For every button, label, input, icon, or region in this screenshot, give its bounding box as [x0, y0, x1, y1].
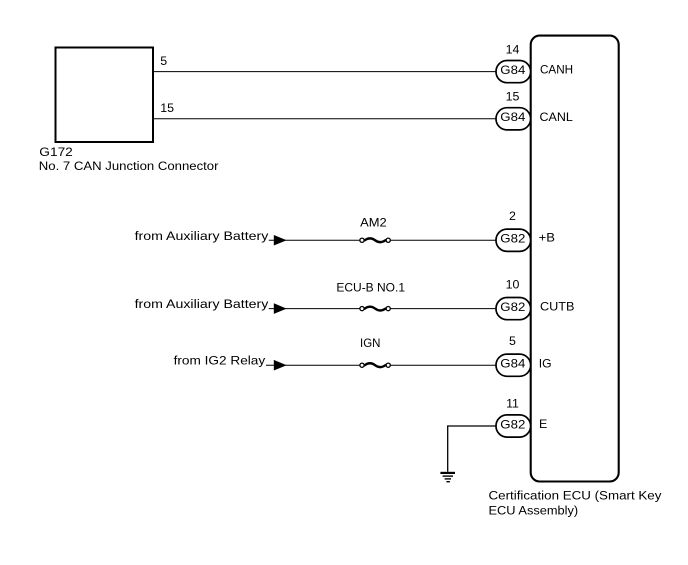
svg-text:G82: G82	[500, 232, 525, 246]
svg-text:CANL: CANL	[540, 110, 573, 124]
svg-text:5: 5	[160, 54, 167, 68]
ground symbol	[440, 473, 455, 482]
svg-text:from Auxiliary Battery: from Auxiliary Battery	[135, 229, 270, 243]
fuse ECU-B NO.1	[360, 307, 390, 311]
svg-text:CUTB: CUTB	[540, 300, 575, 314]
svg-text:from IG2 Relay: from IG2 Relay	[174, 354, 266, 368]
svg-text:CANH: CANH	[540, 63, 573, 77]
svg-text:G84: G84	[500, 357, 525, 371]
svg-text:G172: G172	[39, 145, 73, 159]
fuse AM2	[360, 238, 390, 242]
wire from Auxiliary Battery to fuse AM2	[269, 239, 360, 241]
svg-text:14: 14	[506, 43, 520, 57]
arrow (row CUTB)	[274, 303, 287, 314]
connector pill G84 pin row IG	[496, 354, 531, 376]
svg-text:5: 5	[509, 334, 516, 348]
svg-text:ECU-B NO.1: ECU-B NO.1	[336, 280, 405, 294]
arrow (row +B)	[274, 235, 287, 246]
svg-text:G84: G84	[500, 110, 525, 124]
svg-text:G82: G82	[500, 300, 525, 314]
Certification ECU box U1	[531, 36, 619, 482]
svg-text:E: E	[539, 417, 547, 431]
svg-text:from Auxiliary Battery: from Auxiliary Battery	[135, 297, 270, 311]
connector pill G84 pin row CANL	[496, 108, 531, 130]
junction connector G172 box	[56, 48, 154, 143]
svg-text:2: 2	[509, 209, 516, 223]
svg-text:AM2: AM2	[360, 216, 387, 230]
svg-text:No. 7 CAN Junction Connector: No. 7 CAN Junction Connector	[39, 159, 219, 173]
wire from IG2 Relay to fuse IGN	[266, 364, 360, 366]
svg-text:11: 11	[506, 397, 519, 411]
connector pill G84 pin row CANH	[496, 61, 531, 83]
svg-text:ECU Assembly): ECU Assembly)	[489, 504, 579, 518]
svg-text:+B: +B	[539, 231, 555, 245]
connector pill G82 pin row CUTB	[496, 298, 531, 320]
wire from fuse IGN to ECU pin 5	[390, 364, 498, 366]
wire from Auxiliary Battery to fuse ECU-B NO.1	[269, 308, 360, 310]
svg-text:15: 15	[506, 90, 520, 104]
fuse IGN	[360, 363, 390, 367]
wire CANH from G172 pin 5 to ECU pin 14	[153, 71, 498, 73]
svg-text:G84: G84	[500, 63, 525, 77]
svg-text:IGN: IGN	[360, 336, 380, 350]
wire from ECU pin E to ground	[448, 426, 498, 472]
svg-text:IG: IG	[539, 356, 552, 370]
svg-text:G82: G82	[500, 417, 525, 431]
connector pill G82 pin row E	[496, 415, 531, 437]
svg-text:10: 10	[506, 278, 520, 292]
arrow (row IG)	[274, 360, 287, 371]
wire CANL from G172 pin 15 to ECU pin 15	[153, 118, 498, 120]
connector pill G82 pin row B	[496, 229, 531, 251]
svg-text:15: 15	[160, 101, 174, 115]
svg-text:Certification ECU (Smart Key: Certification ECU (Smart Key	[489, 489, 663, 503]
wire from fuse AM2 to ECU pin 2	[390, 239, 498, 241]
wire from fuse ECU-B NO.1 to ECU pin 10	[390, 308, 498, 310]
